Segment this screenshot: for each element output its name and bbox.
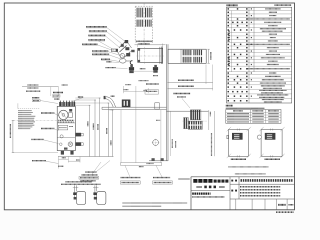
drain trap 1 [73,185,86,204]
flexible hose curve [104,96,116,107]
unit legs [61,151,74,155]
grille centreline [183,120,207,122]
installation diagram left [227,127,251,158]
bottom-centre label group [120,166,172,185]
unit body front view [57,106,75,150]
gas connection leg [129,65,134,73]
small dim text above side view [135,41,166,47]
bottom-left label stack [79,161,110,181]
piping assembly (valves and unions) [111,40,134,63]
wall feet [147,158,169,163]
installation diagram right [257,127,285,158]
left vertical dimension [10,120,58,152]
grille dims right [209,110,215,156]
notes block (small legend text) [18,103,40,128]
horizontal dimensions below wall duct [167,65,212,91]
spec table 2 heading [226,106,264,109]
heater body side view [137,47,164,64]
gaikanzu subtitle [191,186,230,191]
drain hook [130,61,132,65]
caption left diagram [231,158,246,160]
wall section (vertical double line) [167,44,169,161]
spec table 2 grid [226,110,281,124]
wide dimension bracket [121,163,162,167]
side fittings right of unit [76,133,84,146]
exhaust top label [174,94,191,109]
note line 2 [235,173,266,175]
right vertical dimensions of front view [58,98,114,157]
extension lines to 506 bracket [121,107,161,163]
left captions of unit [31,113,58,144]
connection labels with leaders [82,27,124,62]
company name and address [192,194,225,197]
duct through wall, side view with louvres [168,49,206,63]
spec table 1 heading [227,4,292,6]
dim 160 under right leg [153,75,158,77]
front view: labels above unit [22,85,115,104]
water connection leg [153,65,158,73]
spec table 1 grid and entries [227,7,292,103]
pipe cover label box [145,84,159,94]
Rinnai logo text [193,179,229,183]
rear exhaust pipe to wall [102,107,167,109]
exhaust grille block [184,110,203,129]
pipe clamp near wall [155,103,160,109]
fittings on top of unit [59,101,75,107]
wall-side small dims [156,111,176,156]
dim right of duct [207,49,210,63]
exhaust damper fitting [122,100,131,108]
name cell [230,177,294,199]
title block bottom row [236,199,294,210]
dimension under duct [136,41,152,44]
drawing number [276,211,294,213]
title block frame [191,177,294,210]
dim 140 between legs [132,69,156,72]
stray label [179,178,190,180]
drain trap 2 [93,185,106,204]
model numbers cell [230,187,294,199]
wall top edge line [167,110,209,112]
caption right diagram [265,158,280,160]
bottom note lines [123,203,188,206]
lower dims under front view [32,157,80,169]
flange at wall [160,47,163,64]
cylinder caption labels [61,182,101,185]
adjustable range texts [124,81,149,107]
note line 1 [229,166,269,168]
floor pipe circle [152,139,159,146]
exhaust duct top (dashed outline with louvre hatching) [135,3,152,43]
mixing valve / pipe cover labels [106,62,128,69]
